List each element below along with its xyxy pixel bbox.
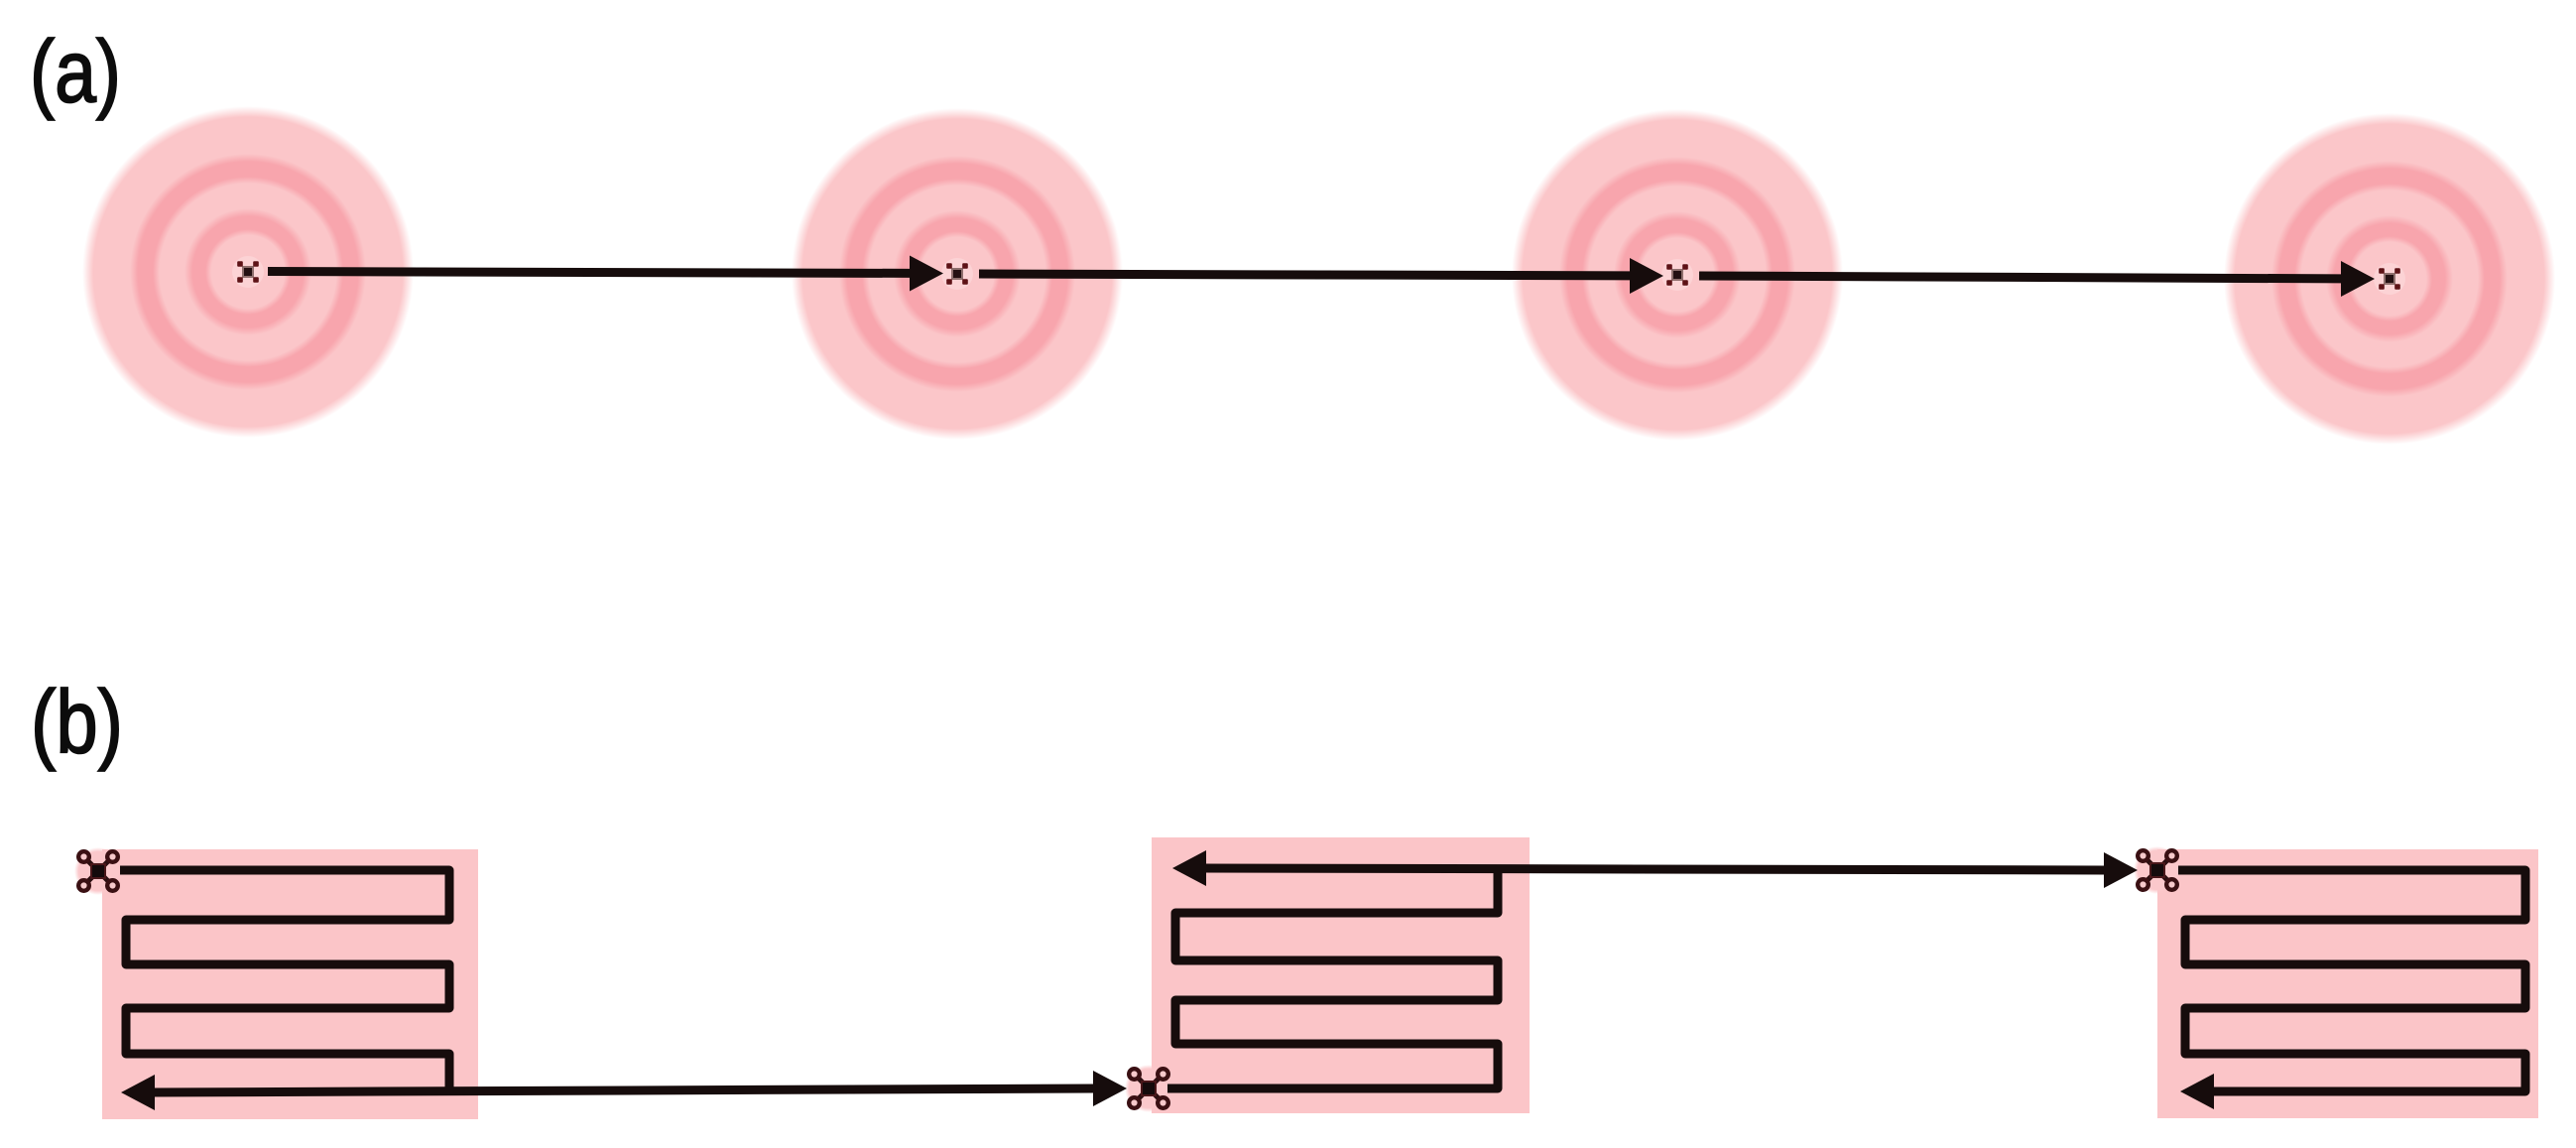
drone icon B2 (1125, 1065, 1172, 1112)
zigzag path B3 (2178, 870, 2525, 1091)
drone icon A2 (941, 258, 973, 290)
arrow A2->A3 (979, 258, 1663, 294)
svg-text:(b): (b) (31, 674, 123, 773)
sonar circle 3 (1511, 108, 1844, 442)
drone icon B1 (74, 847, 122, 895)
arrow A1->A2 (268, 256, 943, 292)
region rect B3 (2157, 849, 2538, 1118)
transit arrow B2 end / into B3 drone (1172, 850, 2138, 888)
svg-text:(a): (a) (30, 22, 121, 121)
region rect B2 (1152, 837, 1530, 1113)
zigzag path B2 (1167, 868, 1498, 1088)
drone icon A4 (2374, 263, 2405, 295)
drone icon B3 (2134, 846, 2181, 894)
zigzag path B1 (120, 870, 449, 1092)
transit arrow B1 end / into B2 drone (121, 1071, 1127, 1110)
sonar circle 1 (81, 105, 415, 439)
drone icon A3 (1661, 259, 1693, 291)
sonar circle 2 (791, 107, 1124, 441)
sonar circle 4 (2223, 112, 2556, 446)
drone icon A1 (232, 256, 264, 288)
final arrowhead B3 (2180, 1074, 2214, 1109)
arrow A3->A4 (1699, 261, 2375, 297)
region rect B1 (102, 849, 478, 1119)
